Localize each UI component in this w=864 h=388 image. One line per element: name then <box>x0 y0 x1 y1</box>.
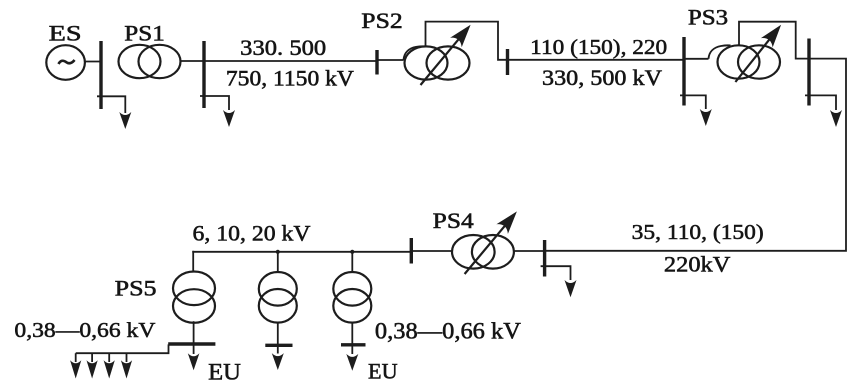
wire PS1 to bus B <box>181 60 205 62</box>
wire drop to transformer T2 <box>277 252 279 273</box>
LV busbar T3 <box>341 343 366 346</box>
svg-text:PS1: PS1 <box>124 21 165 46</box>
svg-text:PS3: PS3 <box>688 4 728 29</box>
generator ES <box>46 45 85 80</box>
svg-text:EU: EU <box>208 359 241 384</box>
wire T1 to LV bar <box>193 321 195 354</box>
bus A <box>99 41 102 109</box>
bus F <box>807 39 810 106</box>
load arrow on bus B <box>200 96 235 127</box>
wire T3 to LV bar <box>351 322 353 354</box>
feeder arrow 1 <box>70 353 81 378</box>
svg-text:330, 500 kV: 330, 500 kV <box>542 65 662 90</box>
wire bus F to right edge and down to bottom row <box>545 59 846 251</box>
wire ES to bus A <box>85 61 101 63</box>
feeder arrow 2 <box>87 353 98 378</box>
tap-changer arrow PS3 <box>735 25 781 82</box>
transformer PS4 <box>452 235 514 269</box>
transformer PS1 <box>119 45 181 78</box>
wire PS4 to tick H <box>411 250 451 252</box>
svg-text:110 (150), 220: 110 (150), 220 <box>530 35 667 59</box>
load arrow on bus E <box>680 95 712 126</box>
transformer T1 (PS5) <box>173 272 215 323</box>
load arrow on bus F <box>805 95 842 127</box>
wire bus G to PS4 <box>515 250 545 252</box>
svg-text:0,38—0,66 kV: 0,38—0,66 kV <box>375 319 521 344</box>
LV busbar T2 <box>265 344 292 347</box>
svg-text:220kV: 220kV <box>664 251 731 276</box>
feeder wire from T1 bar to distribution arrows <box>76 344 169 353</box>
svg-text:6, 10, 20 kV: 6, 10, 20 kV <box>193 221 311 246</box>
svg-text:750, 1150 kV: 750, 1150 kV <box>226 66 354 91</box>
jumper wire over PS3 <box>739 22 809 59</box>
svg-text:0,38—0,66 kV: 0,38—0,66 kV <box>14 318 156 342</box>
load arrow on bus A <box>97 96 131 129</box>
bus E <box>682 37 685 106</box>
svg-text:PS2: PS2 <box>361 8 402 33</box>
wire drop to transformer T3 <box>351 252 353 273</box>
wire tick D to bus E <box>508 59 685 61</box>
svg-text:330. 500: 330. 500 <box>240 35 326 60</box>
bus tick C <box>375 50 378 75</box>
transformer T3 <box>333 272 371 323</box>
junction node T2 <box>276 250 280 254</box>
svg-text:35, 110, (150): 35, 110, (150) <box>632 220 764 244</box>
bus tick H <box>410 238 413 264</box>
bus tick D <box>506 49 509 75</box>
feeder arrow 3 <box>104 353 115 378</box>
load arrow T3 EU <box>346 354 358 371</box>
svg-text:PS5: PS5 <box>115 275 157 300</box>
tap-changer arrow PS4 <box>465 211 517 274</box>
bus B <box>202 41 205 108</box>
wire T2 to LV bar <box>277 322 279 354</box>
wire tick C to PS2 <box>377 59 404 61</box>
svg-text:ES: ES <box>49 21 82 46</box>
load arrow T2 <box>272 353 284 370</box>
wire drop to transformer T1 <box>192 251 194 272</box>
transformer T2 <box>259 272 297 323</box>
transformer PS3 <box>709 45 781 78</box>
jumper wire over PS2 <box>426 22 508 60</box>
svg-text:PS4: PS4 <box>433 208 474 233</box>
transformer PS2 <box>404 46 470 79</box>
feeder arrow 4 <box>121 353 132 378</box>
wire 6-20kV line <box>192 251 411 253</box>
LV busbar T1 <box>168 342 215 345</box>
bus G <box>543 240 546 277</box>
tap-changer arrow PS2 <box>421 25 471 85</box>
wire line bus B to tick C <box>204 60 377 62</box>
svg-text:EU: EU <box>368 359 398 384</box>
load arrow T1 EU <box>188 353 200 370</box>
junction node T3 <box>350 250 354 254</box>
load arrow on bus G <box>541 266 577 297</box>
wire bus E to PS3 <box>684 58 709 60</box>
